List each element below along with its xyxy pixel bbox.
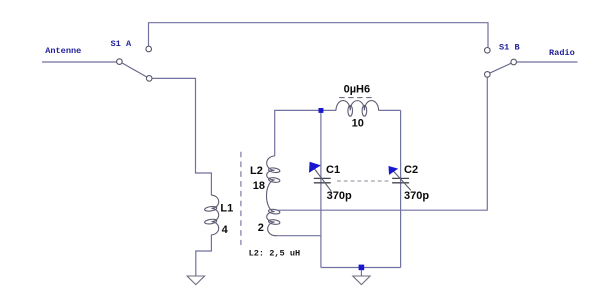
- wire L1 to ground: [196, 235, 212, 276]
- wire C1 vertical: [320, 110, 322, 267]
- wire S1A throw to L1 branch: [152, 78, 211, 195]
- wire L2 tap to S1B: [278, 209, 488, 211]
- switch S1 B: [485, 43, 520, 78]
- svg-text:2: 2: [258, 222, 264, 234]
- capacitor C2: [389, 164, 430, 202]
- wire S1B throw down to tap: [486, 77, 488, 210]
- coupling dashed line L1/L2: [240, 152, 242, 245]
- svg-text:Antenne: Antenne: [45, 46, 81, 56]
- svg-text:C1: C1: [326, 164, 340, 176]
- svg-text:370p: 370p: [327, 190, 352, 202]
- svg-text:L2: L2: [250, 165, 263, 177]
- wire tank top-right: [379, 109, 401, 111]
- svg-text:Radio: Radio: [549, 48, 575, 58]
- svg-text:S1 A: S1 A: [111, 39, 132, 49]
- svg-text:L1: L1: [220, 203, 233, 215]
- inductor L2: [250, 156, 280, 236]
- switch S1 A: [111, 39, 153, 81]
- svg-text:C2: C2: [404, 164, 418, 176]
- capacitor C1: [309, 162, 352, 202]
- inductor 0uH6 (top coil): [336, 84, 379, 130]
- ground (bottom): [353, 270, 370, 284]
- svg-text:S1 B: S1 B: [499, 43, 520, 53]
- inductor L1: [204, 195, 233, 236]
- junction (bottom): [359, 265, 365, 271]
- wire C2 vertical: [400, 110, 402, 267]
- svg-text:4: 4: [222, 224, 229, 236]
- ground (left): [187, 276, 205, 285]
- svg-text:18: 18: [253, 180, 265, 192]
- wire bottom rail: [321, 267, 401, 269]
- gang dashed link C1-C2: [337, 180, 390, 182]
- wire top rail: [149, 23, 489, 48]
- svg-text:370p: 370p: [404, 190, 429, 202]
- wire radio lead: [517, 61, 578, 63]
- wire L2 bottom to C1 branch: [278, 235, 321, 237]
- svg-text:0µH6: 0µH6: [344, 84, 371, 96]
- wire tank top-left: [275, 110, 336, 156]
- wire antenna lead: [42, 61, 117, 63]
- junction (top): [319, 108, 324, 113]
- svg-text:10: 10: [352, 117, 364, 129]
- svg-text:L2: 2,5 uH: L2: 2,5 uH: [249, 248, 301, 258]
